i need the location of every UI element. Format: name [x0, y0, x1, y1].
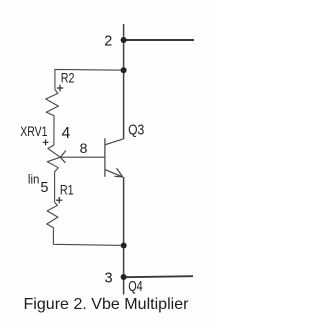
svg-text:5: 5 — [40, 180, 48, 196]
svg-text:Figure 2. Vbe Multiplier: Figure 2. Vbe Multiplier — [24, 296, 190, 313]
svg-text:R2: R2 — [61, 69, 75, 85]
svg-text:Q3: Q3 — [128, 122, 144, 138]
svg-text:2: 2 — [104, 33, 112, 49]
svg-text:8: 8 — [80, 140, 88, 156]
svg-text:R1: R1 — [60, 181, 74, 197]
svg-text:XRV1: XRV1 — [20, 124, 47, 139]
svg-text:3: 3 — [105, 271, 113, 287]
svg-text:lin: lin — [28, 173, 40, 187]
svg-text:Q4: Q4 — [128, 279, 143, 295]
svg-text:4: 4 — [62, 125, 71, 142]
